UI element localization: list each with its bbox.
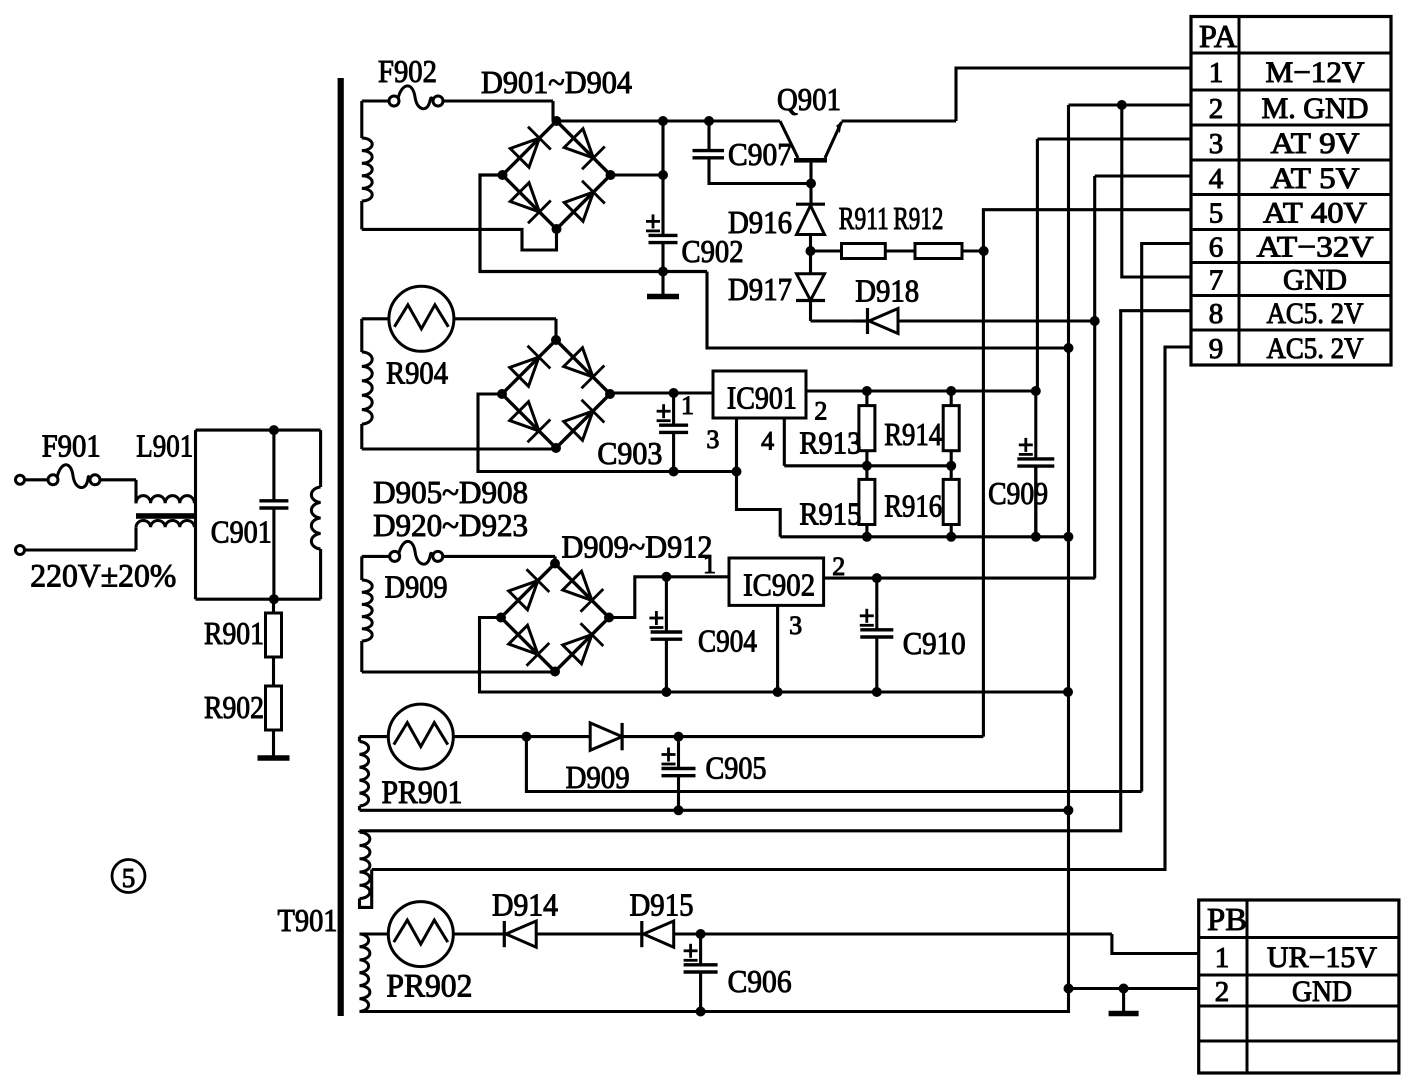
svg-text:R915: R915 — [799, 496, 861, 532]
svg-text:C904: C904 — [698, 622, 757, 658]
svg-text:AT 40V: AT 40V — [1263, 197, 1367, 230]
svg-text:R904: R904 — [386, 355, 448, 391]
svg-text:4: 4 — [1209, 163, 1224, 195]
svg-text:5: 5 — [122, 863, 136, 893]
svg-text:AC5. 2V: AC5. 2V — [1267, 297, 1364, 330]
svg-text:C901: C901 — [211, 513, 272, 549]
svg-text:C909: C909 — [988, 475, 1048, 511]
svg-text:Q901: Q901 — [777, 81, 841, 117]
svg-text:GND: GND — [1292, 975, 1352, 1008]
svg-text:R916: R916 — [884, 487, 942, 523]
svg-text:8: 8 — [1209, 298, 1224, 330]
svg-text:T901: T901 — [278, 902, 338, 938]
svg-text:D918: D918 — [855, 273, 919, 309]
svg-text:2: 2 — [814, 396, 827, 425]
svg-text:C906: C906 — [728, 963, 792, 999]
svg-text:C910: C910 — [903, 625, 966, 661]
svg-text:5: 5 — [1209, 198, 1224, 230]
svg-text:R902: R902 — [204, 689, 264, 725]
svg-text:3: 3 — [789, 611, 802, 640]
svg-text:M. GND: M. GND — [1262, 92, 1369, 125]
svg-text:7: 7 — [1209, 265, 1224, 297]
svg-text:220V±20%: 220V±20% — [30, 559, 176, 595]
svg-text:PR901: PR901 — [382, 775, 463, 811]
svg-text:1: 1 — [1215, 942, 1230, 974]
svg-text:PB: PB — [1207, 901, 1247, 937]
svg-text:UR−15V: UR−15V — [1267, 941, 1377, 974]
svg-text:PA: PA — [1199, 18, 1237, 54]
svg-text:1: 1 — [681, 391, 694, 420]
svg-text:1: 1 — [703, 550, 716, 579]
svg-text:R911: R911 — [839, 200, 889, 236]
svg-text:IC901: IC901 — [727, 379, 797, 415]
svg-text:R912: R912 — [893, 200, 943, 236]
svg-text:C907: C907 — [728, 136, 792, 172]
svg-text:3: 3 — [1209, 128, 1224, 160]
svg-text:F902: F902 — [378, 53, 437, 89]
svg-text:AC5. 2V: AC5. 2V — [1267, 332, 1364, 365]
svg-text:GND: GND — [1283, 264, 1347, 297]
svg-text:3: 3 — [706, 425, 719, 454]
svg-text:L901: L901 — [136, 428, 193, 464]
svg-text:C905: C905 — [706, 749, 767, 785]
svg-text:D914: D914 — [492, 887, 558, 923]
svg-text:AT 9V: AT 9V — [1271, 127, 1360, 160]
svg-text:D901~D904: D901~D904 — [481, 64, 632, 100]
svg-text:C903: C903 — [597, 435, 662, 471]
svg-text:R914: R914 — [884, 416, 942, 452]
svg-text:1: 1 — [1209, 57, 1224, 89]
svg-text:D909: D909 — [566, 759, 630, 795]
svg-text:AT 5V: AT 5V — [1271, 162, 1360, 195]
svg-text:9: 9 — [1209, 333, 1224, 365]
svg-text:D920~D923: D920~D923 — [373, 507, 528, 543]
svg-text:PR902: PR902 — [386, 969, 472, 1005]
svg-text:D909: D909 — [385, 569, 448, 605]
svg-text:R901: R901 — [204, 615, 264, 651]
svg-text:6: 6 — [1209, 232, 1224, 264]
svg-text:R913: R913 — [799, 424, 861, 460]
svg-text:C902: C902 — [682, 233, 744, 269]
svg-text:D905~D908: D905~D908 — [373, 474, 528, 510]
svg-text:F901: F901 — [42, 428, 101, 464]
svg-text:M−12V: M−12V — [1266, 56, 1365, 89]
svg-text:2: 2 — [1209, 93, 1224, 125]
svg-text:D917: D917 — [728, 271, 792, 307]
svg-text:D915: D915 — [630, 887, 694, 923]
svg-text:AT−32V: AT−32V — [1257, 231, 1374, 264]
svg-text:4: 4 — [761, 426, 774, 455]
svg-text:IC902: IC902 — [743, 566, 815, 602]
svg-text:2: 2 — [1215, 976, 1230, 1008]
svg-text:D909~D912: D909~D912 — [562, 528, 713, 564]
